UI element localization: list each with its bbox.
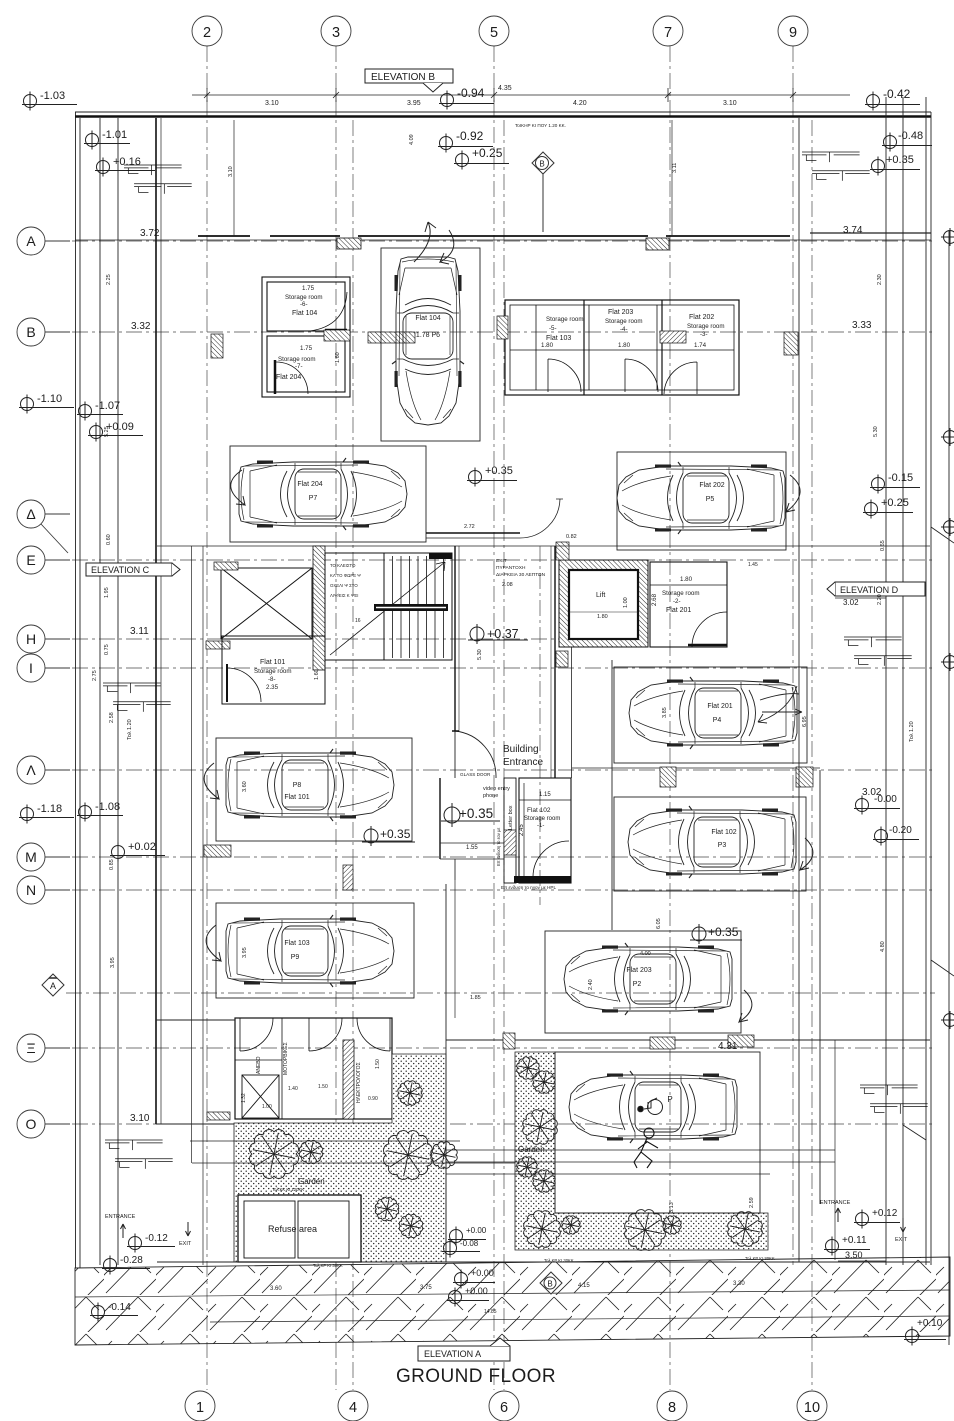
svg-text:2.25: 2.25	[106, 274, 112, 285]
svg-text:3.60: 3.60	[270, 1286, 282, 1292]
svg-text:-7-: -7-	[295, 363, 303, 370]
beam symbol mid-right	[844, 637, 912, 666]
person figure	[634, 1128, 658, 1168]
svg-text:1.78 P6: 1.78 P6	[416, 332, 440, 339]
grid bubbles left: A B D E H I L M N X O	[17, 227, 70, 1138]
svg-text:E: E	[26, 552, 35, 568]
lane boundary lines bottom	[156, 884, 930, 1262]
svg-text:Storage room: Storage room	[662, 590, 700, 597]
svg-text:Garden: Garden	[518, 1145, 545, 1154]
svg-text:-3-: -3-	[700, 331, 708, 338]
svg-text:P2: P2	[633, 981, 642, 988]
svg-text:1.85: 1.85	[470, 995, 481, 1001]
hatches at storage block	[497, 316, 508, 339]
svg-text:+0.35: +0.35	[380, 827, 411, 841]
svg-text:-0.20: -0.20	[889, 825, 912, 836]
elevation D label	[827, 582, 925, 596]
hatch on east wall below B	[784, 332, 798, 355]
svg-text:+0.16: +0.16	[113, 156, 141, 168]
wall between P2 and P1 rows	[446, 1039, 930, 1041]
svg-text:Τολ.ΚΚ ΚΙ 120ΚΚ: Τολ.ΚΚ ΚΙ 120ΚΚ	[272, 1187, 304, 1192]
svg-text:+0.25: +0.25	[881, 497, 909, 509]
svg-text:ELEVATION B: ELEVATION B	[371, 72, 435, 83]
level marker +0.35 at P2	[690, 924, 742, 944]
svg-text:B: B	[539, 160, 544, 169]
svg-text:3.13: 3.13	[669, 1202, 675, 1213]
car P8 (Flat 101)	[226, 749, 394, 821]
trees right garden	[517, 1057, 539, 1079]
car P4 (Flat 201)	[629, 677, 797, 749]
svg-text:EXIT: EXIT	[496, 558, 507, 564]
svg-text:1.40: 1.40	[288, 1086, 298, 1092]
svg-text:2.58: 2.58	[109, 712, 115, 723]
svg-text:Επ ενδυση το ηχον με HPL: Επ ενδυση το ηχον με HPL	[501, 885, 556, 890]
svg-text:P5: P5	[706, 496, 715, 503]
svg-text:ΛΙΨ/ΕΙΣ Κ ΨΕΙ: ΛΙΨ/ΕΙΣ Κ ΨΕΙ	[330, 593, 358, 598]
svg-text:3.11: 3.11	[672, 163, 678, 173]
svg-text:16: 16	[355, 618, 361, 624]
elevation B label	[365, 69, 453, 92]
section marker diamond A left	[42, 974, 64, 996]
entry arrow P9	[206, 925, 221, 961]
svg-text:Storage room: Storage room	[687, 323, 725, 330]
garden left with stipple	[234, 1054, 446, 1262]
svg-text:4.20: 4.20	[573, 100, 587, 107]
svg-text:3.02: 3.02	[862, 787, 882, 798]
svg-text:10: 10	[804, 1400, 820, 1416]
svg-text:ΟΧΕΛΙ Ψ ΣΤΟ: ΟΧΕΛΙ Ψ ΣΤΟ	[330, 583, 358, 588]
svg-text:4.15: 4.15	[578, 1283, 590, 1289]
building west wall	[155, 118, 157, 1124]
svg-text:-0.42: -0.42	[883, 87, 911, 101]
parking bay P7 outline	[230, 446, 426, 542]
svg-text:+0.00: +0.00	[466, 1226, 487, 1235]
svg-text:1.80: 1.80	[680, 576, 693, 583]
svg-text:0.90: 0.90	[368, 1096, 378, 1102]
car P1 disabled bay	[569, 1071, 737, 1143]
svg-text:P9: P9	[291, 954, 300, 961]
entry arrow P7	[231, 470, 245, 505]
wall hatch right of storage 104	[324, 330, 350, 341]
svg-text:P7: P7	[309, 495, 318, 502]
svg-text:1.50: 1.50	[318, 1084, 328, 1090]
svg-text:Επ ενδυση το εον με: Επ ενδυση το εον με	[496, 828, 501, 866]
beam symbol bottom-left	[105, 1140, 173, 1169]
svg-text:1.60: 1.60	[314, 669, 320, 680]
level marker +0.35 entrance	[441, 803, 500, 827]
svg-text:3.30: 3.30	[733, 1281, 745, 1287]
svg-text:ELEVATION C: ELEVATION C	[91, 565, 150, 575]
svg-text:-2-: -2-	[673, 598, 681, 605]
grid axis horizontal lines	[45, 241, 935, 1124]
svg-text:9: 9	[789, 25, 797, 41]
svg-text:6: 6	[500, 1400, 508, 1416]
svg-text:ELEVATION A: ELEVATION A	[424, 1349, 481, 1359]
svg-text:Storage room: Storage room	[546, 316, 584, 323]
svg-text:3.11: 3.11	[130, 626, 149, 637]
svg-text:+0.35: +0.35	[708, 925, 739, 939]
svg-text:3.10: 3.10	[228, 166, 234, 177]
hatched wall in rooms	[343, 1040, 354, 1119]
parking bay P6 outline	[381, 248, 480, 441]
svg-text:5: 5	[490, 25, 498, 41]
wall below P7 and door to entrance	[157, 545, 455, 547]
grid bubbles bottom: 1 4 6 8 10	[185, 1391, 827, 1421]
svg-text:ENTRANCE: ENTRANCE	[105, 1214, 136, 1220]
svg-text:Λ: Λ	[26, 762, 36, 778]
garden right with stipple	[515, 1052, 768, 1250]
svg-text:Storage room: Storage room	[285, 294, 323, 301]
svg-text:B: B	[26, 324, 35, 340]
svg-text:3.74: 3.74	[843, 225, 863, 236]
parking bay P3 outline	[614, 797, 806, 891]
svg-text:+0.09: +0.09	[106, 421, 134, 433]
svg-text:-0.15: -0.15	[888, 472, 913, 484]
svg-text:2.35: 2.35	[266, 684, 279, 691]
main row dimensions	[130, 225, 872, 1124]
svg-text:H: H	[26, 631, 36, 647]
svg-text:3.95: 3.95	[242, 947, 248, 958]
svg-text:ΤΟ ΚΛΕΙΣΤΟ: ΤΟ ΚΛΕΙΣΤΟ	[330, 563, 356, 568]
storage room flat 201	[650, 562, 727, 647]
entry arrow P5	[786, 475, 800, 512]
level markers around plan	[22, 92, 77, 111]
svg-text:Flat 201: Flat 201	[666, 607, 691, 614]
lane walls	[612, 118, 820, 1262]
svg-text:1.75: 1.75	[300, 345, 313, 352]
svg-text:2.75: 2.75	[92, 670, 98, 681]
svg-text:Τολ 1.20: Τολ 1.20	[909, 721, 915, 742]
svg-text:-1.01: -1.01	[102, 129, 127, 141]
parking bay P9 outline	[216, 903, 414, 998]
beam symbol top-right	[802, 152, 870, 181]
svg-text:Flat 101: Flat 101	[260, 659, 285, 666]
entrance exit left	[105, 1214, 192, 1247]
svg-text:Garden: Garden	[298, 1177, 325, 1186]
svg-text:1.00: 1.00	[623, 597, 629, 608]
svg-text:ENTRANCE: ENTRANCE	[820, 1200, 851, 1206]
svg-text:14.85: 14.85	[484, 1309, 497, 1315]
small rotated dimension texts	[92, 134, 915, 968]
svg-text:Refuse area: Refuse area	[268, 1224, 317, 1234]
entry arrow P2	[739, 990, 752, 1022]
svg-text:ΔΙΑΡΚΕΙΑ 30 ΛΕΠΤΩΝ: ΔΙΑΡΚΕΙΑ 30 ΛΕΠΤΩΝ	[496, 572, 546, 578]
section marker diamond B top	[532, 152, 554, 232]
plot boundary left double line	[76, 112, 119, 1268]
svg-text:-0.92: -0.92	[456, 129, 484, 143]
svg-text:1.60: 1.60	[335, 352, 341, 363]
building east boundary lines	[886, 97, 954, 1345]
svg-text:Δ: Δ	[26, 506, 35, 522]
parking bay P4 outline	[614, 667, 807, 763]
wheelchair symbol	[638, 1098, 663, 1115]
svg-text:2.59: 2.59	[749, 1197, 755, 1208]
svg-text:3.60: 3.60	[242, 781, 248, 792]
staircase	[325, 553, 452, 660]
svg-text:-0.48: -0.48	[898, 130, 923, 142]
svg-text:-8-: -8-	[268, 676, 276, 683]
svg-text:+0.00: +0.00	[465, 1286, 488, 1296]
wall hatch west wall below B	[211, 334, 223, 358]
svg-text:0.65: 0.65	[880, 540, 886, 551]
svg-text:GLASS DOOR: GLASS DOOR	[460, 772, 491, 777]
svg-text:3.10: 3.10	[265, 100, 279, 107]
svg-text:-5-: -5-	[549, 325, 557, 332]
svg-text:Flat 203: Flat 203	[608, 309, 633, 316]
section marker diamond B bottom	[540, 1272, 562, 1294]
car P2 (Flat 203)	[564, 943, 732, 1015]
svg-text:-6-: -6-	[300, 301, 308, 308]
svg-text:-1-: -1-	[537, 823, 544, 829]
entrance exit right	[820, 1200, 908, 1243]
parking bay P2 outline	[545, 931, 741, 1033]
svg-text:3.32: 3.32	[131, 321, 151, 332]
svg-text:ΠΥΡΑΝΤΟΧΗ: ΠΥΡΑΝΤΟΧΗ	[496, 565, 526, 571]
parking bay P8 outline	[216, 738, 412, 841]
svg-text:P3: P3	[718, 842, 727, 849]
svg-text:+0.12: +0.12	[872, 1208, 898, 1219]
car P3 (Flat 102)	[628, 806, 796, 878]
level marker +0.37	[468, 624, 528, 644]
svg-text:4: 4	[349, 1400, 357, 1416]
svg-text:+0.35: +0.35	[485, 465, 513, 477]
svg-text:Flat 204: Flat 204	[276, 374, 301, 381]
svg-text:Flat 204: Flat 204	[297, 481, 322, 488]
svg-text:2.08: 2.08	[502, 582, 513, 588]
svg-text:I: I	[29, 660, 33, 676]
right edge chain markers	[941, 228, 954, 246]
svg-text:1.32: 1.32	[241, 1093, 247, 1103]
svg-text:-0.28: -0.28	[120, 1255, 143, 1266]
svg-text:5.30: 5.30	[477, 649, 483, 660]
svg-text:2.20: 2.20	[877, 594, 883, 605]
svg-text:+0.00: +0.00	[471, 1268, 494, 1278]
svg-text:3.10: 3.10	[130, 1113, 150, 1124]
svg-text:8: 8	[668, 1400, 676, 1416]
svg-text:0.75: 0.75	[104, 644, 110, 655]
svg-text:+0.11: +0.11	[842, 1235, 867, 1246]
svg-text:Lift: Lift	[596, 592, 605, 599]
svg-text:Flat 103: Flat 103	[546, 335, 571, 342]
svg-text:A: A	[50, 981, 56, 991]
svg-text:Flat 201: Flat 201	[707, 703, 732, 710]
top dimension line with values	[192, 88, 850, 102]
wall below P4 with pillar hatches	[572, 767, 820, 769]
svg-text:-1.07: -1.07	[95, 400, 120, 412]
storage room flat 102	[519, 778, 571, 883]
car P5 (Flat 202)	[617, 462, 785, 534]
svg-text:1.15: 1.15	[539, 792, 551, 798]
svg-text:+0.25: +0.25	[472, 146, 503, 160]
svg-text:-0.14: -0.14	[108, 1302, 131, 1313]
svg-text:1.74: 1.74	[694, 342, 707, 349]
svg-text:6.95: 6.95	[802, 716, 808, 727]
svg-text:Flat 202: Flat 202	[699, 482, 724, 489]
svg-text:N: N	[26, 882, 36, 898]
svg-text:Flat 104: Flat 104	[292, 310, 317, 317]
svg-text:Entrance: Entrance	[503, 757, 543, 768]
svg-text:phone: phone	[483, 793, 498, 799]
svg-text:7: 7	[664, 25, 672, 41]
svg-text:Flat 103: Flat 103	[284, 940, 309, 947]
svg-text:0.82: 0.82	[566, 534, 577, 540]
trees left garden	[250, 1130, 299, 1179]
svg-text:EXIT: EXIT	[179, 1241, 192, 1247]
svg-text:4.31: 4.31	[718, 1041, 738, 1052]
svg-text:3.95: 3.95	[407, 100, 421, 107]
svg-text:2.72: 2.72	[464, 524, 475, 530]
road band with paving hatch	[75, 1257, 950, 1345]
refuse area	[238, 1195, 361, 1262]
car P6 (Flat 104)	[392, 257, 464, 425]
svg-text:0.85: 0.85	[109, 859, 115, 870]
svg-text:4.80: 4.80	[880, 941, 886, 952]
svg-text:Flat 104: Flat 104	[415, 315, 440, 322]
svg-text:3.10: 3.10	[723, 100, 737, 107]
svg-text:video entry: video entry	[483, 786, 510, 792]
svg-text:P: P	[667, 1095, 672, 1104]
svg-text:2.68: 2.68	[651, 593, 658, 606]
svg-text:1.00: 1.00	[262, 1104, 272, 1110]
svg-text:1.80: 1.80	[541, 342, 554, 349]
car P7 (Flat 204)	[239, 458, 407, 530]
glass entrance door	[455, 731, 496, 778]
svg-text:Flat 101: Flat 101	[284, 794, 309, 801]
svg-text:3.02: 3.02	[843, 598, 859, 607]
svg-text:M: M	[25, 849, 37, 865]
svg-text:3.50: 3.50	[845, 1250, 863, 1260]
svg-text:ΑΝΕΒΟ: ΑΝΕΒΟ	[256, 1056, 262, 1074]
svg-text:ΤοΙΚΗΡ ΚΙ ΠΟΥ 1.20 ΚΚ.: ΤοΙΚΗΡ ΚΙ ΠΟΥ 1.20 ΚΚ.	[515, 123, 566, 128]
svg-text:3.75: 3.75	[420, 1285, 432, 1291]
elevation C label	[86, 563, 180, 576]
svg-text:Flat 202: Flat 202	[689, 314, 714, 321]
svg-text:5.30: 5.30	[873, 426, 879, 437]
svg-text:+0.02: +0.02	[128, 841, 156, 853]
svg-text:4.09: 4.09	[409, 134, 415, 145]
svg-text:P4: P4	[713, 717, 722, 724]
north parking boundary wall	[75, 239, 931, 241]
ramp shaft with X cross	[221, 568, 312, 639]
beam symbol bottom-right	[860, 1085, 928, 1114]
shaft X box in rooms	[242, 1075, 279, 1118]
svg-text:Flat 102: Flat 102	[527, 807, 551, 814]
ancillary rooms bottom-left	[235, 1018, 392, 1119]
svg-text:+0.35: +0.35	[459, 806, 493, 821]
parking bay P5 outline	[617, 452, 786, 550]
entry arrow for P6	[414, 222, 436, 262]
svg-text:Storage room: Storage room	[278, 356, 316, 363]
svg-text:2: 2	[203, 25, 211, 41]
svg-text:Storage room: Storage room	[254, 668, 292, 675]
entry arrow P4	[758, 686, 802, 723]
svg-text:Τολ 1.20: Τολ 1.20	[127, 719, 133, 740]
lift shaft	[559, 560, 648, 647]
svg-text:+0.37: +0.37	[487, 627, 519, 641]
beam symbol mid-left	[103, 683, 171, 712]
storage room flat 101	[222, 636, 325, 704]
level marker +0.35 at P8	[362, 826, 415, 846]
entry arrow P8	[204, 763, 219, 799]
svg-text:1.80: 1.80	[618, 342, 631, 349]
grid axis vertical lines	[207, 46, 812, 1390]
svg-text:1.55: 1.55	[466, 845, 478, 851]
svg-text:3.85: 3.85	[662, 707, 668, 718]
svg-text:ΜΟΤΟΡΒΙΚΕΣ: ΜΟΤΟΡΒΙΚΕΣ	[283, 1042, 289, 1075]
svg-text:4.00: 4.00	[640, 951, 651, 957]
svg-text:O: O	[26, 1116, 37, 1132]
svg-text:+0.35: +0.35	[886, 154, 914, 166]
hatched wall between ramp and stairs	[313, 546, 325, 670]
hatches near M/N lane	[204, 845, 231, 857]
svg-text:-1.18: -1.18	[37, 803, 62, 815]
svg-text:6.05: 6.05	[656, 918, 662, 929]
storage rooms flat 103 / 203 / 202 block	[505, 300, 739, 395]
svg-text:-1.08: -1.08	[95, 801, 120, 813]
svg-text:5.25: 5.25	[104, 426, 110, 437]
pillar hatches on north wall	[337, 238, 361, 249]
svg-text:2.45: 2.45	[519, 824, 525, 836]
svg-text:-0.12: -0.12	[145, 1233, 168, 1244]
elevation A label	[418, 1338, 510, 1361]
dimension lines across P1 area	[446, 1149, 835, 1151]
svg-text:1.45: 1.45	[748, 562, 758, 568]
svg-text:-4-: -4-	[620, 326, 628, 333]
svg-text:P8: P8	[293, 782, 302, 789]
svg-text:3: 3	[332, 25, 340, 41]
svg-text:-1.10: -1.10	[37, 393, 62, 405]
svg-text:B: B	[547, 1280, 552, 1289]
svg-text:2.40: 2.40	[588, 979, 594, 990]
svg-text:-1.03: -1.03	[40, 90, 65, 102]
svg-text:-0.08: -0.08	[460, 1239, 479, 1248]
svg-text:Ξ: Ξ	[26, 1040, 35, 1056]
svg-text:-0.94: -0.94	[457, 86, 485, 100]
svg-text:1.75: 1.75	[302, 285, 315, 292]
svg-text:EXIT: EXIT	[895, 1237, 908, 1243]
svg-text:Letter box: Letter box	[508, 805, 514, 830]
svg-text:1: 1	[196, 1400, 204, 1416]
svg-text:1.80: 1.80	[597, 614, 608, 620]
svg-text:3.72: 3.72	[140, 228, 160, 239]
svg-text:GROUND FLOOR: GROUND FLOOR	[396, 1366, 556, 1387]
svg-text:0.60: 0.60	[106, 534, 112, 545]
exit corridor labels	[496, 558, 546, 578]
svg-text:3.33: 3.33	[852, 320, 872, 331]
entrance corridor walls	[440, 546, 555, 880]
svg-text:A: A	[26, 233, 36, 249]
svg-text:Flat 203: Flat 203	[626, 967, 651, 974]
svg-text:Storage room: Storage room	[524, 816, 560, 822]
svg-text:ΗΛΕΚΤΡΟΛΟΓΟΣ: ΗΛΕΚΤΡΟΛΟΓΟΣ	[356, 1062, 362, 1103]
svg-text:4.35: 4.35	[498, 85, 512, 92]
svg-text:ΚΛ ΤΟ ΦΩΡΕ Ψ: ΚΛ ΤΟ ΦΩΡΕ Ψ	[330, 573, 361, 578]
beam symbol top-left	[124, 165, 192, 194]
svg-text:Storage room: Storage room	[605, 318, 643, 325]
parking bay P1 outline	[555, 1052, 760, 1213]
grid bubbles top: 2 3 5 7 9	[192, 16, 808, 46]
entry arrow P3	[800, 838, 813, 870]
svg-text:Building: Building	[503, 744, 539, 755]
svg-text:1.50: 1.50	[375, 1059, 381, 1069]
storage room flat 104 and flat 204 block	[262, 277, 350, 397]
building top wall	[75, 111, 931, 113]
svg-text:Flat 102: Flat 102	[711, 829, 736, 836]
svg-text:3.95: 3.95	[110, 957, 116, 968]
svg-text:1.95: 1.95	[104, 587, 110, 598]
car P9 (Flat 103)	[226, 915, 394, 987]
svg-text:2.30: 2.30	[877, 274, 883, 285]
